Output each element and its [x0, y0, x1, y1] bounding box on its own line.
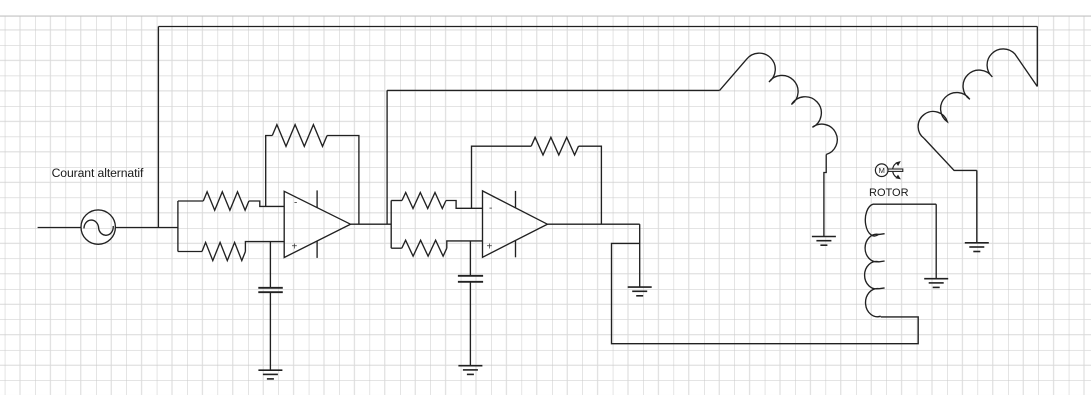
resistor R1 — [203, 192, 249, 210]
wire W24 op2 output — [547, 223, 639, 225]
wire W13 C1 to ground — [269, 292, 271, 370]
svg-text:ROTOR: ROTOR — [869, 187, 909, 199]
ground G6 — [965, 243, 989, 252]
wire W20 R5 left lead — [391, 247, 402, 249]
resistor R6 feedback — [472, 137, 602, 224]
svg-text:-: - — [294, 198, 297, 209]
wire W12 C1 tap — [269, 242, 271, 288]
ground G5 — [924, 279, 948, 288]
wire W7 L2 ground drop — [976, 170, 978, 242]
ground G2 — [458, 366, 482, 375]
wire W22 C2 tap — [469, 241, 471, 276]
wire W10 R3 left lead — [178, 251, 202, 253]
AC source V1 — [81, 210, 115, 244]
resistor R2 feedback — [266, 125, 359, 225]
wire W23 C2 to ground — [469, 282, 471, 366]
wire W2 source to input junction — [115, 227, 177, 229]
wire W14 op1 output — [351, 223, 392, 225]
ground G4 — [812, 237, 836, 246]
node N2 stage2 input split — [390, 201, 392, 249]
resistor R3 — [202, 242, 245, 260]
wire W3 top feed riser — [157, 27, 159, 228]
svg-text:+: + — [292, 242, 298, 253]
wire W5 right drop to coil L2 — [1036, 27, 1038, 87]
resistor R4 — [402, 193, 446, 209]
wire W16 coil feed horizontal — [387, 89, 719, 91]
svg-text:+: + — [487, 242, 493, 253]
wire W11 R3 to non-inverting input — [245, 242, 284, 252]
wire W28 rotor ground drop — [935, 204, 937, 279]
wire W9 R1 to inverting input — [249, 201, 284, 206]
op-amp U1 — [284, 190, 350, 258]
inductor L3 rotor winding — [865, 204, 885, 317]
svg-text:M: M — [879, 166, 885, 175]
node N1 stage1 input split — [177, 201, 179, 252]
ground G3 — [628, 287, 652, 296]
wire W8 R1 left lead — [178, 200, 203, 202]
svg-text:-: - — [489, 203, 492, 214]
wire W21 R5 to non-inverting input — [447, 241, 483, 248]
inductor L1 — [720, 53, 838, 154]
ground G1 — [258, 370, 282, 379]
resistor R5 — [402, 240, 447, 256]
svg-text:Courant alternatif: Courant alternatif — [52, 166, 144, 180]
wire W15 coil feed riser — [386, 90, 388, 224]
wire W4 top horizontal net — [158, 26, 1037, 28]
motor icon M1 — [875, 161, 902, 179]
op-amp U2 — [483, 191, 548, 257]
wire W26 rotor feed tap — [612, 243, 919, 343]
capacitor C1 — [258, 288, 283, 292]
wire W25 output ground drop — [639, 224, 641, 287]
wire W27 rotor top — [873, 203, 936, 205]
wire W17 L1 ground drop — [824, 155, 826, 237]
wire W1 source left stub — [38, 227, 81, 229]
inductor L2 — [918, 49, 1037, 139]
wire W19 R4 to inverting input — [446, 201, 483, 209]
wire W6 coil L2 tail — [924, 139, 977, 171]
wire W18 R4 left lead — [391, 200, 402, 202]
capacitor C2 — [458, 276, 483, 282]
